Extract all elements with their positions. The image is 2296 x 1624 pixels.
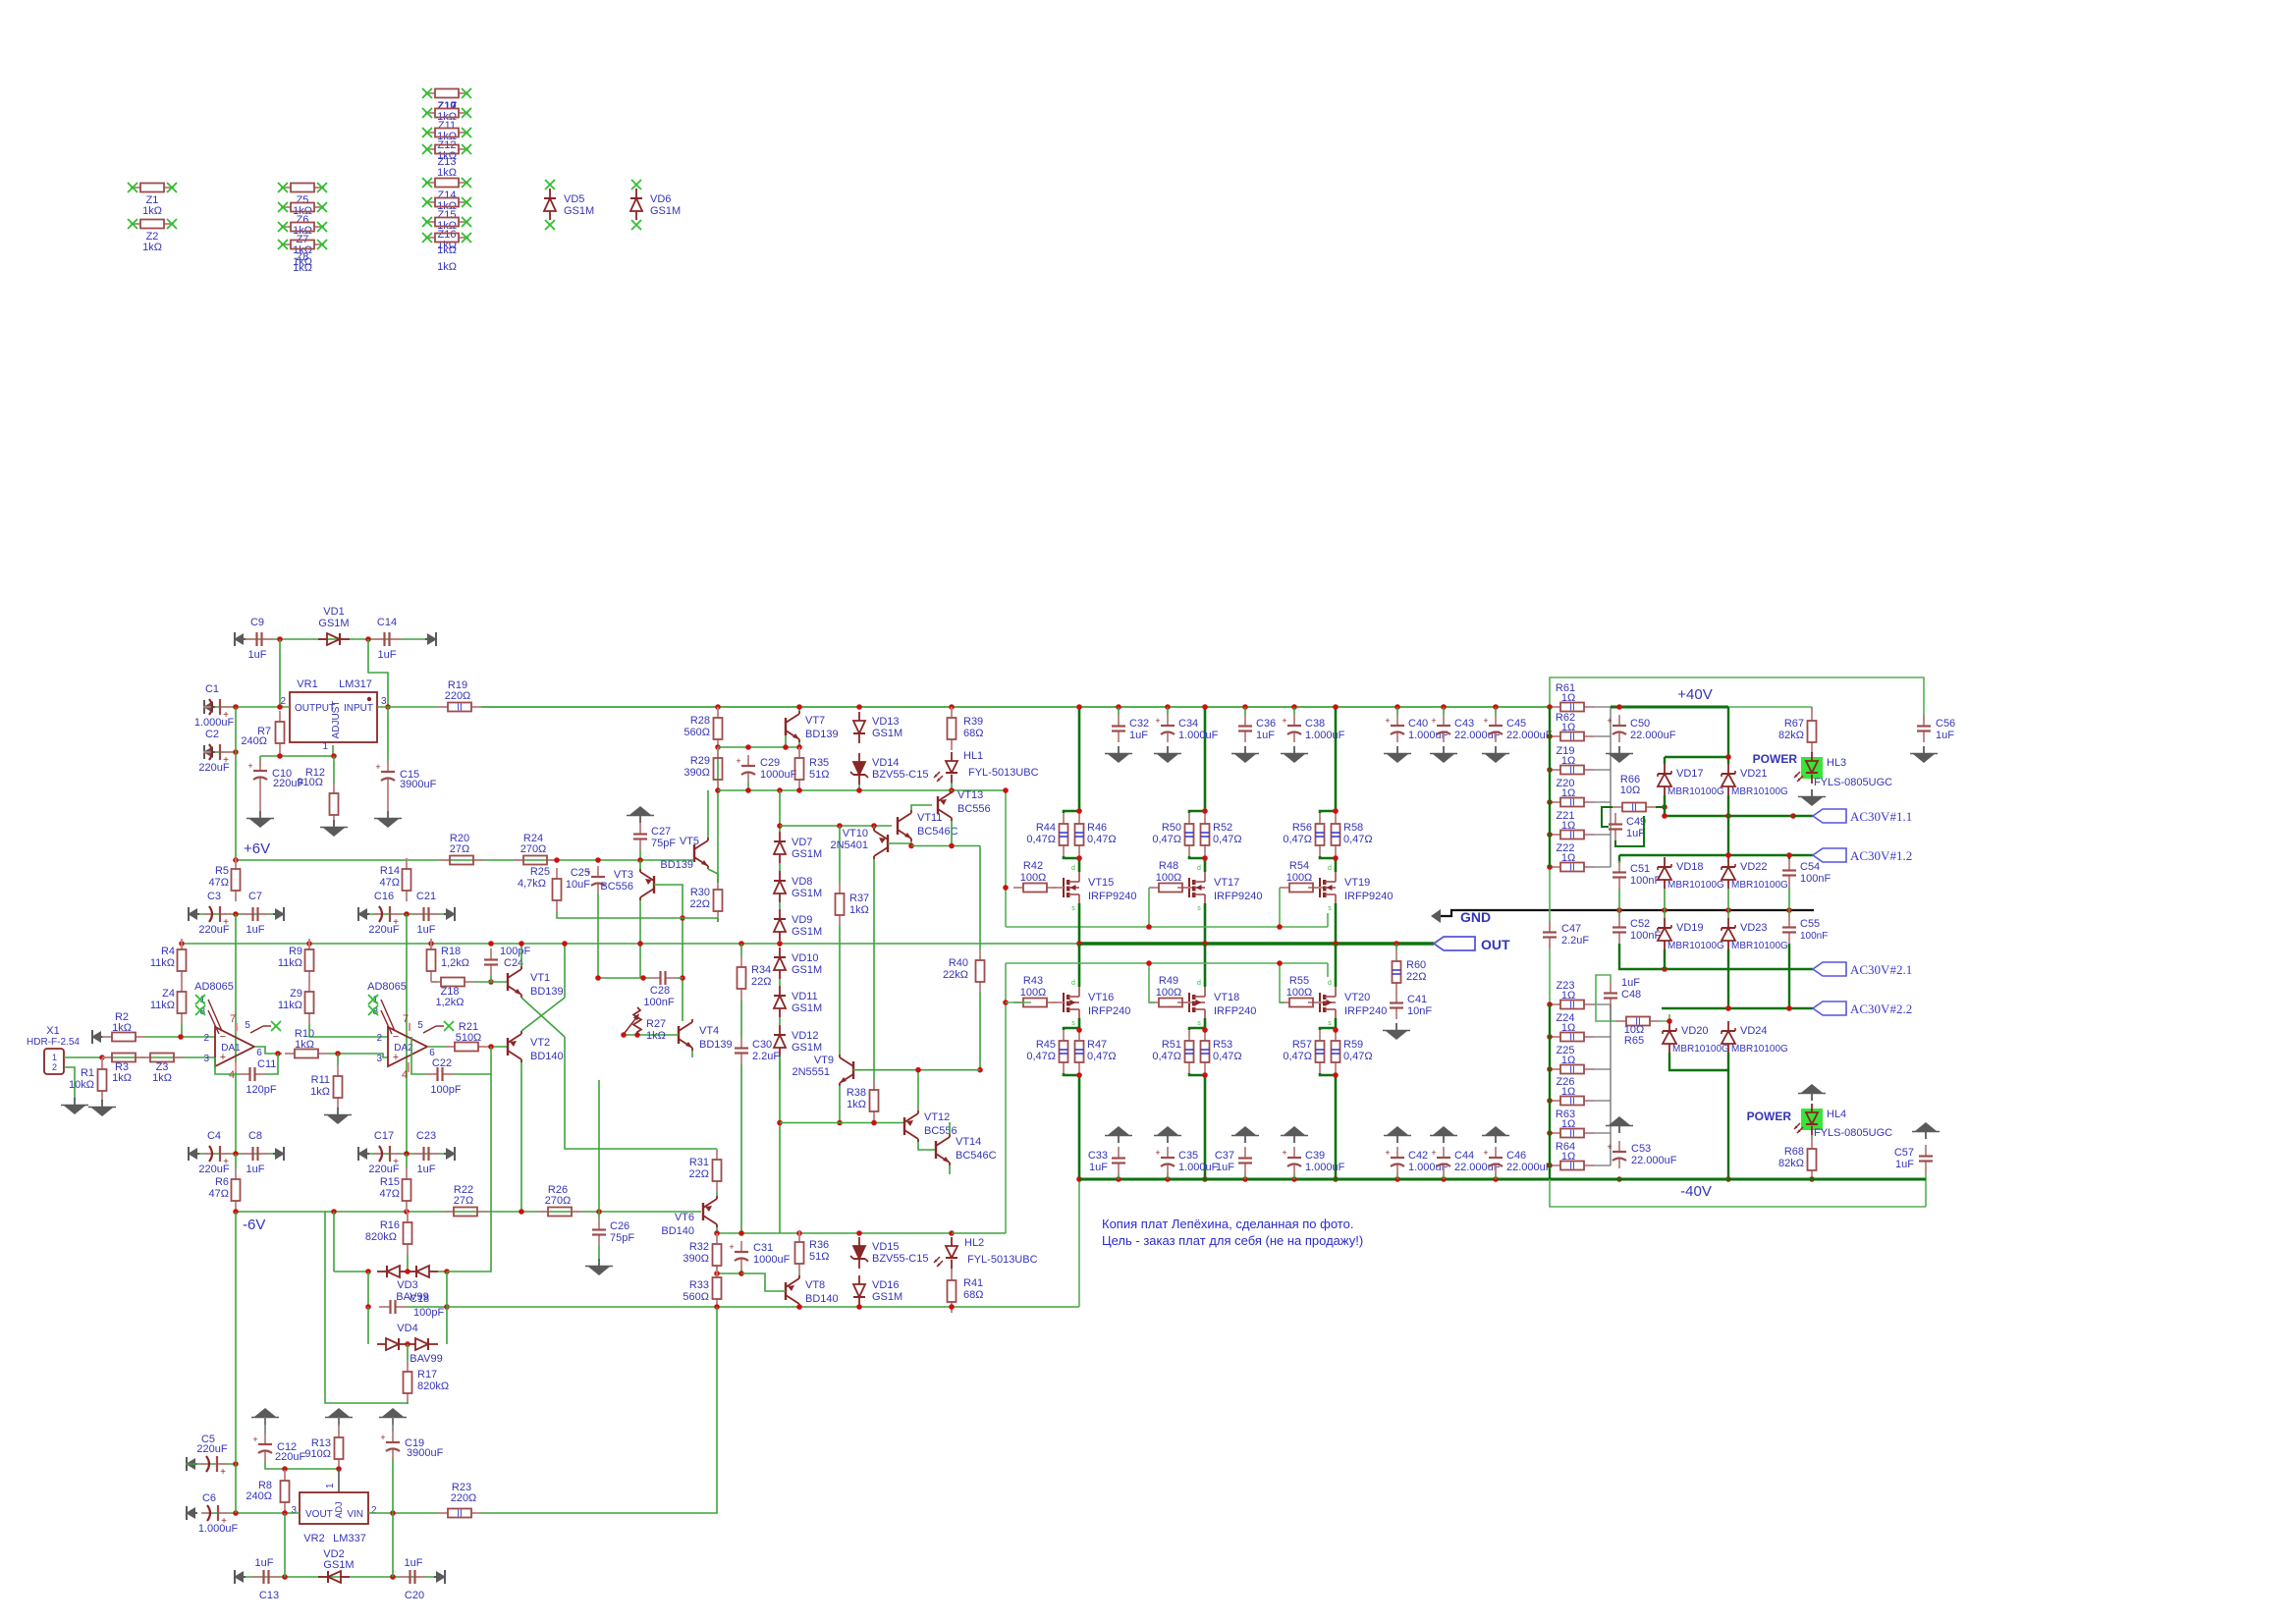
- svg-text:R9: R9: [289, 946, 302, 957]
- capacitor C33 1uF: [1088, 1147, 1125, 1174]
- capacitor C29 1000uF: [736, 755, 796, 783]
- svg-text:C37: C37: [1215, 1150, 1234, 1162]
- diode VD19 MBR10100G: [1658, 918, 1724, 951]
- junction R7/ADJ: [277, 753, 283, 759]
- resistor R33 560: [683, 1267, 721, 1310]
- svg-text:C32: C32: [1129, 718, 1149, 730]
- wire bridge bottom: [1669, 1053, 1728, 1070]
- capacitor C16 220uF: [368, 891, 401, 936]
- wire VT4 base row: [624, 1034, 679, 1036]
- resistor Z5 1k: [278, 183, 327, 217]
- svg-text:C27: C27: [651, 826, 671, 838]
- wire VIN to R23: [368, 1512, 438, 1514]
- resistor R54 100 gate: [1280, 860, 1323, 893]
- svg-text:C55: C55: [1800, 918, 1820, 930]
- svg-text:C52: C52: [1630, 918, 1650, 930]
- wire R11 stub: [337, 1054, 339, 1065]
- ground above C46: [1482, 1126, 1509, 1143]
- wire pair bottom link: [1064, 856, 1079, 858]
- resistor R14 47: [380, 858, 411, 901]
- capacitor C47 2.2uF: [1543, 921, 1589, 948]
- svg-text:0,47Ω: 0,47Ω: [1152, 834, 1181, 845]
- junction pair bottom: [1202, 855, 1208, 861]
- junction AC1.1 mid: [1725, 813, 1731, 819]
- wire +6V feed vertical: [235, 707, 237, 860]
- junction C34 top: [1165, 704, 1171, 710]
- wire Z18 to VT1 base: [474, 981, 508, 983]
- wire VD14 bottom: [858, 785, 860, 790]
- svg-text:+: +: [380, 1433, 385, 1442]
- svg-text:R39: R39: [963, 716, 983, 728]
- svg-text:POWER: POWER: [1753, 752, 1798, 766]
- wire C30 to row: [740, 1232, 742, 1234]
- svg-text:1uF: 1uF: [1626, 828, 1645, 839]
- svg-text:1.000uF: 1.000uF: [1178, 730, 1219, 741]
- svg-text:1uF: 1uF: [255, 1557, 274, 1569]
- junction R25 top: [554, 857, 560, 863]
- svg-text:100nF: 100nF: [1800, 931, 1828, 942]
- diode VD13 GS1M: [853, 712, 902, 743]
- diode VD2 GS1M: [318, 1548, 355, 1583]
- svg-text:100Ω: 100Ω: [1286, 872, 1313, 884]
- wire C48 loop: [1596, 975, 1616, 1021]
- svg-text:47Ω: 47Ω: [209, 1188, 229, 1200]
- junction R38 bottom: [871, 1120, 877, 1126]
- resistor R19 220: [438, 679, 481, 714]
- resistor Z17 1k: [422, 233, 471, 256]
- capacitor C39 1.000uF: [1282, 1147, 1344, 1174]
- ground above C37: [1231, 1126, 1259, 1143]
- svg-text:MBR10100G: MBR10100G: [1667, 786, 1724, 797]
- resistor Z24 1: [1551, 1012, 1594, 1044]
- svg-text:C21: C21: [416, 891, 436, 902]
- svg-text:R14: R14: [380, 865, 400, 877]
- wire C11 to in+: [215, 1057, 239, 1074]
- svg-text:10nF: 10nF: [1407, 1005, 1432, 1017]
- capacitor C18 100pF: [379, 1293, 444, 1319]
- wire R40 bottom: [979, 993, 981, 1070]
- resistor Z1 1k: [128, 183, 177, 217]
- capacitor C21 1uF: [412, 891, 440, 936]
- junction OUT: [1202, 941, 1208, 947]
- wire VT8 emitter: [798, 1305, 800, 1307]
- wire VT10 base row: [780, 825, 892, 827]
- wire R18 to Z18: [431, 981, 437, 983]
- svg-text:0,47Ω: 0,47Ω: [1026, 834, 1056, 845]
- svg-text:220uF: 220uF: [198, 762, 229, 774]
- svg-text:HL3: HL3: [1827, 757, 1846, 769]
- svg-text:GS1M: GS1M: [872, 728, 902, 739]
- svg-text:BD139: BD139: [530, 986, 564, 998]
- svg-text:VT16: VT16: [1088, 992, 1114, 1003]
- resistor R44 0.47: [1026, 813, 1067, 856]
- diode VD7 GS1M: [774, 832, 822, 863]
- svg-text:II: II: [1569, 1065, 1575, 1076]
- svg-text:1kΩ: 1kΩ: [849, 904, 869, 916]
- svg-text:GS1M: GS1M: [792, 964, 822, 976]
- resistor R45 0.47: [1026, 1030, 1067, 1073]
- resistor R68 82k: [1778, 1138, 1816, 1181]
- wire cap stub: [1443, 707, 1445, 715]
- svg-text:AC30V#2.1: AC30V#2.1: [1850, 962, 1912, 977]
- mosfet VT15 IRFP9240: [1052, 865, 1137, 912]
- svg-text:II: II: [457, 703, 463, 714]
- svg-text:BD139: BD139: [660, 859, 693, 871]
- svg-text:s: s: [1328, 1020, 1332, 1027]
- resistor R49 100 gate: [1149, 975, 1192, 1007]
- resistor Z7 1k: [278, 222, 327, 256]
- svg-text:100nF: 100nF: [643, 997, 674, 1008]
- svg-text:R67: R67: [1784, 718, 1804, 730]
- junction R43 left: [1003, 1000, 1009, 1005]
- dual diode VD3 BAV99: [377, 1266, 438, 1303]
- svg-text:HL4: HL4: [1827, 1109, 1846, 1120]
- junction C45 top: [1493, 704, 1499, 710]
- power arrow left of C13: [234, 1570, 246, 1584]
- capacitor C2 220uF: [198, 729, 231, 774]
- ground below C56: [1910, 746, 1938, 763]
- wire R25/R30 bottom row: [557, 911, 718, 918]
- wire VT8 base: [741, 1273, 786, 1291]
- svg-text:3: 3: [291, 1505, 297, 1516]
- junction gate bus top: [1003, 787, 1009, 793]
- wire gate drive vertical lower: [1005, 963, 1007, 1233]
- junction C35 bottom: [1165, 1176, 1171, 1182]
- svg-text:R45: R45: [1036, 1039, 1056, 1051]
- wire R21 to VT2: [488, 1046, 508, 1048]
- svg-text:100Ω: 100Ω: [1020, 987, 1047, 999]
- junction Z26 left: [1547, 1098, 1553, 1104]
- svg-text:−: −: [220, 1031, 226, 1043]
- svg-text:220uF: 220uF: [198, 924, 229, 936]
- svg-text:BD139: BD139: [699, 1039, 733, 1051]
- svg-text:R68: R68: [1784, 1146, 1804, 1158]
- wire C10 top: [259, 756, 261, 767]
- wire light border bottom: [1550, 1179, 1926, 1207]
- svg-text:1: 1: [325, 1483, 336, 1489]
- svg-text:VT6: VT6: [675, 1212, 694, 1223]
- wire right stub: [1594, 801, 1611, 803]
- svg-text:C41: C41: [1407, 994, 1427, 1005]
- svg-text:R38: R38: [847, 1087, 866, 1099]
- power arrow left of C4: [188, 1147, 199, 1161]
- svg-text:51Ω: 51Ω: [809, 769, 829, 781]
- svg-text:100Ω: 100Ω: [1156, 987, 1182, 999]
- svg-text:R46: R46: [1087, 822, 1107, 834]
- resistor Z15 1k: [422, 197, 471, 232]
- junction C29 bottom: [745, 787, 751, 793]
- wire X1 pin1: [64, 1056, 102, 1058]
- svg-text:1.000uF: 1.000uF: [1305, 730, 1345, 741]
- wire cap stub: [1293, 707, 1295, 715]
- svg-text:VD8: VD8: [792, 876, 812, 888]
- wire left bus light upper: [1549, 867, 1551, 930]
- wire R32 top: [716, 1232, 718, 1234]
- wire cap stub: [1244, 707, 1246, 715]
- junction C20: [390, 1574, 396, 1580]
- capacitor C4 220uF: [198, 1130, 231, 1175]
- wire rail to VT5 base: [693, 859, 694, 861]
- junction bridge/-40: [1725, 1176, 1731, 1182]
- svg-text:C46: C46: [1506, 1150, 1526, 1162]
- resistor R29 390: [683, 747, 722, 790]
- svg-text:VT13: VT13: [957, 789, 983, 801]
- wire R34 to C30: [740, 1000, 742, 1037]
- wire R66/C49 left loop: [1602, 807, 1613, 827]
- svg-text:BD140: BD140: [530, 1051, 564, 1062]
- svg-text:C2: C2: [205, 729, 219, 740]
- wire OUT bus thick: [1079, 942, 1434, 946]
- wire source to OUT: [1078, 903, 1081, 944]
- svg-text:1uF: 1uF: [378, 649, 397, 661]
- junction C24 top: [488, 941, 494, 947]
- capacitor C50 22.000uF: [1607, 715, 1675, 742]
- wire VD4 to R17: [407, 1344, 409, 1361]
- junction R8 top: [282, 1466, 288, 1472]
- svg-text:560Ω: 560Ω: [683, 727, 710, 738]
- svg-text:C18: C18: [410, 1293, 429, 1305]
- wire VT1 collector: [520, 944, 522, 966]
- svg-text:1Ω: 1Ω: [1561, 990, 1575, 1001]
- resistor Z9 11k: [278, 981, 314, 1024]
- wire C9-VD1-C14 row: [234, 638, 437, 640]
- wire to C11: [266, 1054, 278, 1074]
- wire C6 to VOUT: [203, 1512, 300, 1514]
- svg-text:+: +: [1282, 716, 1286, 726]
- capacitor C17 220uF: [368, 1130, 401, 1175]
- wire bank left bus: [1549, 707, 1551, 867]
- svg-text:7: 7: [230, 1013, 236, 1025]
- wire OUT feedback bus: [182, 943, 1079, 945]
- capacitor C56 1uF: [1917, 715, 1955, 742]
- svg-text:C30: C30: [752, 1039, 772, 1051]
- svg-text:d: d: [1071, 865, 1075, 872]
- svg-text:II: II: [1569, 766, 1575, 777]
- capacitor C23 1uF: [412, 1130, 440, 1175]
- wire VD3 right: [438, 1271, 447, 1272]
- svg-text:R36: R36: [809, 1239, 829, 1251]
- wire -6V rail: [236, 1211, 701, 1213]
- svg-text:390Ω: 390Ω: [683, 1253, 709, 1265]
- power arrow left of C3: [188, 907, 199, 921]
- wire pair bottom link2: [1320, 1073, 1336, 1075]
- wire DA1 supply vertical: [235, 914, 237, 1154]
- svg-text:LM337: LM337: [333, 1533, 366, 1544]
- svg-text:II: II: [1569, 1001, 1575, 1011]
- ground below C26: [585, 1259, 613, 1275]
- junction R33 bottom: [714, 1304, 720, 1310]
- svg-text:C47: C47: [1561, 923, 1581, 935]
- svg-text:GS1M: GS1M: [792, 1042, 822, 1054]
- svg-text:22Ω: 22Ω: [751, 976, 771, 988]
- svg-text:1.000uF: 1.000uF: [1305, 1162, 1345, 1173]
- svg-text:BC556: BC556: [924, 1125, 957, 1137]
- svg-text:910Ω: 910Ω: [297, 777, 323, 788]
- junction R4 top: [179, 941, 185, 947]
- wire lower bias row3: [780, 1122, 904, 1124]
- junction VT7 base: [783, 744, 789, 750]
- capacitor C38 1.000uF: [1282, 715, 1344, 742]
- wire R6 top: [235, 1154, 237, 1168]
- junction VT6 emitter: [714, 1230, 720, 1236]
- junction C31 bottom: [738, 1271, 744, 1276]
- svg-text:+: +: [220, 1467, 226, 1478]
- junction AC1.1 right: [1790, 813, 1796, 819]
- junction VT3 col/C28: [640, 975, 646, 981]
- resistor R1 10k: [69, 1058, 106, 1102]
- svg-text:22.000uF: 22.000uF: [1506, 1162, 1553, 1173]
- capacitor C41 10nF: [1390, 992, 1432, 1019]
- svg-text:VD14: VD14: [872, 757, 900, 769]
- junction +6V left: [233, 857, 239, 863]
- capacitor C57 1uF: [1894, 1145, 1933, 1172]
- resistor R11 1k: [310, 1065, 342, 1109]
- capacitor C28 100nF: [643, 971, 677, 1008]
- wire right stub: [1594, 834, 1611, 836]
- svg-text:1uF: 1uF: [1256, 730, 1275, 741]
- wire VD23 bottom: [1727, 949, 1729, 1008]
- power arrow right of C7: [273, 907, 285, 921]
- resistor R36 51: [795, 1231, 830, 1274]
- svg-text:2N5551: 2N5551: [792, 1066, 830, 1078]
- svg-text:0,47Ω: 0,47Ω: [1152, 1051, 1181, 1062]
- svg-text:C43: C43: [1454, 718, 1474, 730]
- power arrow right of C21: [444, 907, 456, 921]
- svg-text:R37: R37: [849, 893, 869, 904]
- wire pair top link2: [1320, 1028, 1336, 1030]
- diode VD11 GS1M: [774, 986, 822, 1017]
- svg-text:2: 2: [371, 1505, 377, 1516]
- capacitor C30 2.2uF: [735, 1037, 780, 1064]
- wire VD4 left vertical: [367, 1307, 369, 1344]
- junction VT10 emitter: [871, 823, 877, 829]
- svg-text:100pF: 100pF: [413, 1307, 444, 1319]
- svg-text:C9: C9: [250, 617, 264, 628]
- junction chain top: [777, 787, 783, 793]
- junction R63 left: [1547, 1130, 1553, 1136]
- transistor VT1 BD139: [508, 966, 564, 998]
- junction C54 bottom: [1786, 907, 1792, 913]
- wire VT10 emitter stub: [873, 826, 875, 828]
- wire C5 row: [186, 1463, 236, 1465]
- svg-text:2: 2: [376, 1033, 382, 1044]
- junction VT11 emitter: [908, 843, 914, 849]
- svg-text:100Ω: 100Ω: [1020, 872, 1047, 884]
- ground above C35: [1154, 1126, 1181, 1143]
- svg-text:VT20: VT20: [1344, 992, 1370, 1003]
- resistor R52 0.47: [1201, 813, 1242, 856]
- wire to R2: [102, 1036, 103, 1038]
- junction R15/R16 on -6V: [404, 1209, 410, 1215]
- wire pair top link: [1189, 811, 1205, 813]
- junction C50: [1616, 704, 1622, 710]
- regulator VR2 LM337: [291, 1483, 377, 1544]
- diode VD16 GS1M: [853, 1275, 902, 1307]
- wire pair top link: [1320, 811, 1336, 813]
- wire C55 bottom: [1788, 944, 1790, 1008]
- junction R8 bottom: [282, 1510, 288, 1516]
- svg-text:VT12: VT12: [924, 1111, 950, 1123]
- junction -40 rail: [1202, 1176, 1208, 1182]
- svg-text:R27: R27: [646, 1018, 666, 1030]
- wire ADJ pin: [332, 745, 334, 756]
- svg-text:120pF: 120pF: [246, 1084, 276, 1096]
- svg-text:1kΩ: 1kΩ: [112, 1022, 132, 1034]
- svg-text:11kΩ: 11kΩ: [278, 1000, 302, 1011]
- resistor R5 47: [209, 858, 241, 901]
- svg-text:MBR10100G: MBR10100G: [1667, 941, 1724, 951]
- junction VD1/C14: [365, 636, 371, 642]
- capacitor C42 1.000uF: [1385, 1147, 1448, 1174]
- wire drain column upper: [1335, 707, 1338, 811]
- OUT port: [1434, 937, 1510, 952]
- capacitor C32 1uF: [1112, 715, 1149, 742]
- svg-text:VD11: VD11: [792, 991, 818, 1002]
- junction pair top: [1333, 808, 1339, 814]
- svg-text:VR1: VR1: [297, 678, 317, 690]
- wire VT4 emitter down: [691, 1051, 693, 1057]
- GND port: [1431, 909, 1814, 925]
- wire C15 to gnd: [387, 788, 389, 811]
- port AC30V#1.2: [1813, 848, 1912, 863]
- wire VT13 collector row: [911, 845, 980, 847]
- wire right stub2: [1594, 1132, 1611, 1134]
- port AC30V#2.1: [1813, 962, 1912, 977]
- capacitor C11 120pF: [239, 1058, 277, 1096]
- wire pair top link2: [1189, 1028, 1205, 1030]
- junction AC2.2 right: [1786, 1005, 1792, 1011]
- svg-text:INPUT: INPUT: [344, 703, 373, 714]
- wire ADJ row: [260, 755, 334, 757]
- junction C19/VIN: [390, 1510, 396, 1516]
- stray value label 1k: [437, 261, 457, 273]
- ground above R13: [325, 1408, 353, 1425]
- svg-text:II: II: [1569, 1162, 1575, 1172]
- junction Z23 left: [1547, 1001, 1553, 1007]
- svg-text:1,2kΩ: 1,2kΩ: [441, 957, 469, 969]
- svg-text:−: −: [393, 1031, 399, 1043]
- svg-text:R6: R6: [215, 1176, 229, 1188]
- resistor Z18 1.2k: [431, 978, 474, 1009]
- svg-text:-6V: -6V: [243, 1217, 265, 1233]
- wire R30 bottom: [717, 918, 719, 922]
- wire X1 pin2 to ground: [64, 1067, 75, 1100]
- svg-text:VT2: VT2: [530, 1037, 550, 1049]
- svg-text:VT8: VT8: [805, 1279, 825, 1291]
- svg-text:II: II: [1569, 1097, 1575, 1108]
- svg-text:100Ω: 100Ω: [1156, 872, 1182, 884]
- wire R67 top: [1811, 707, 1813, 710]
- junction C31 top: [738, 1230, 744, 1236]
- diode VD24 MBR10100G: [1722, 1021, 1788, 1055]
- wire cap stub: [1293, 1174, 1295, 1179]
- svg-text:BC556: BC556: [600, 881, 633, 893]
- svg-text:-40V: -40V: [1680, 1183, 1712, 1200]
- diode VD12 GS1M: [774, 1025, 822, 1056]
- resistor R32 390: [683, 1233, 721, 1276]
- svg-text:1Ω: 1Ω: [1561, 1055, 1575, 1066]
- transistor VT5 BD139: [660, 836, 708, 871]
- junction pair2 bottom: [1333, 1072, 1339, 1078]
- capacitor C45 22.000uF: [1483, 715, 1552, 742]
- resistor R35 51: [795, 747, 830, 790]
- resistor Z23 1: [1551, 980, 1594, 1011]
- svg-text:11kΩ: 11kΩ: [150, 957, 175, 969]
- wire drain column lower: [1335, 858, 1338, 872]
- svg-text:68Ω: 68Ω: [963, 728, 983, 739]
- transistor VT10 2N5401: [830, 828, 888, 859]
- svg-text:1uF: 1uF: [1129, 730, 1148, 741]
